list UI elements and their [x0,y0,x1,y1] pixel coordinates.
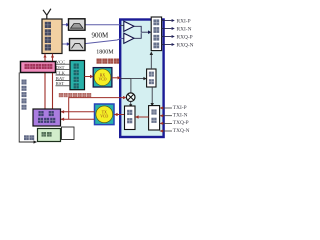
svg-text:900M: 900M [92,32,110,40]
svg-text:VCC: VCC [56,60,65,65]
svg-text:RXI-N: RXI-N [177,26,192,32]
svg-text:RXI-P: RXI-P [177,18,191,24]
svg-text:TXQ-P: TXQ-P [173,120,189,126]
svg-text:1800M: 1800M [96,50,114,56]
svg-text:CLK: CLK [56,70,66,75]
svg-text:VCO: VCO [100,115,108,119]
svg-text:TXQ-N: TXQ-N [173,128,190,134]
svg-text:BAT: BAT [56,76,65,81]
svg-text:RXQ-P: RXQ-P [177,34,193,40]
svg-text:RST: RST [56,81,65,86]
svg-text:VCO: VCO [98,78,106,82]
svg-text:RXQ-N: RXQ-N [177,42,194,48]
svg-text:DST: DST [56,65,65,70]
svg-text:TXI-N: TXI-N [173,113,188,119]
svg-text:TXI-P: TXI-P [173,105,187,111]
